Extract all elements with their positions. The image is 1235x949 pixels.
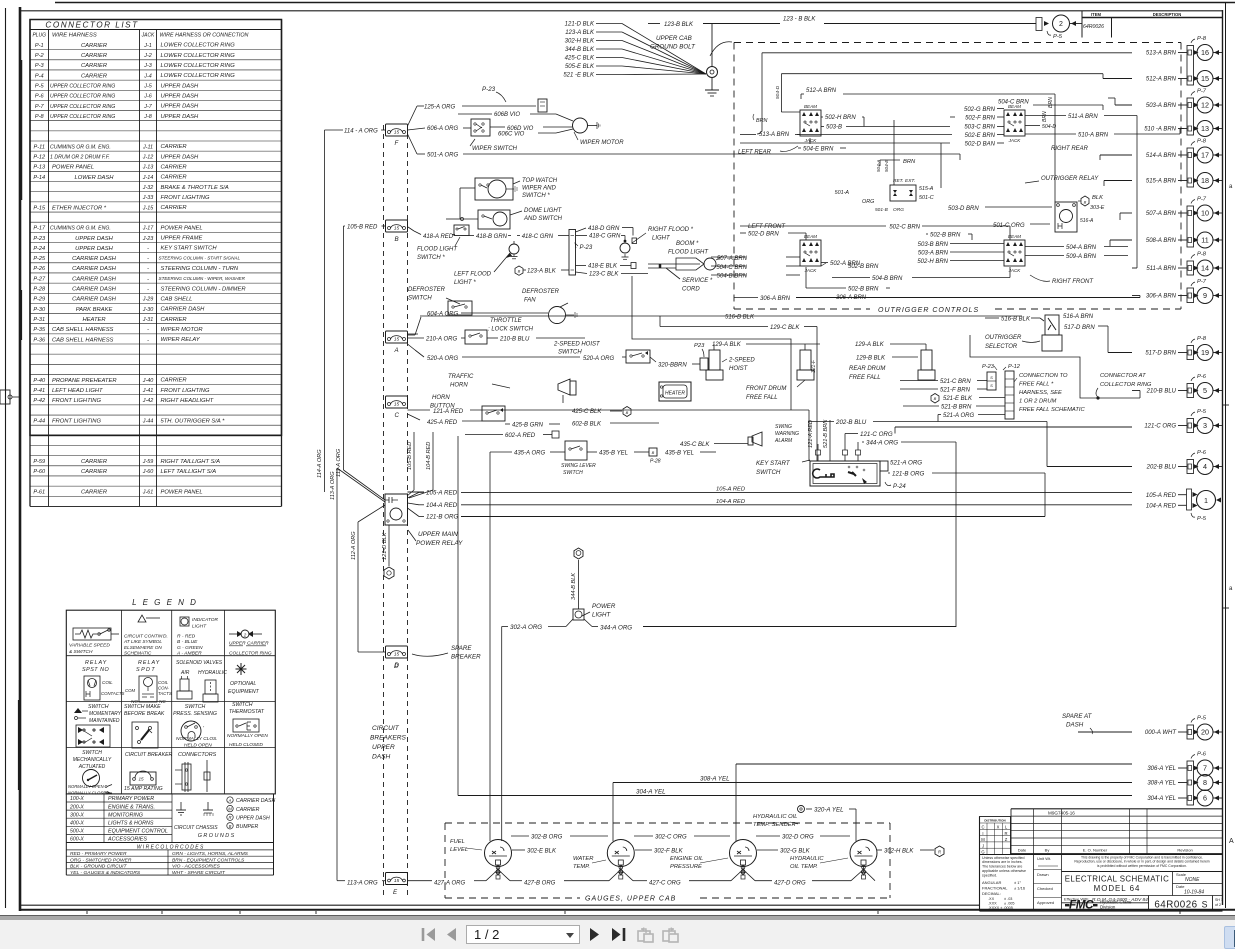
svg-text:CONNECTION TO: CONNECTION TO — [1019, 373, 1068, 379]
svg-text:521-A ORG: 521-A ORG — [943, 413, 974, 419]
svg-text:521-C BRN: 521-C BRN — [940, 379, 971, 385]
svg-text:17: 17 — [1201, 151, 1209, 160]
svg-text:HORN: HORN — [450, 383, 468, 389]
svg-text:POWER RELAY: POWER RELAY — [416, 540, 463, 547]
svg-text:Approved: Approved — [1037, 900, 1054, 905]
page border bottom — [20, 904, 980, 906]
svg-text:123-A BLK: 123-A BLK — [527, 269, 557, 275]
svg-text:COLLECTOR RING: COLLECTOR RING — [1100, 382, 1152, 388]
svg-text:J-60: J-60 — [142, 469, 154, 475]
svg-text:516-A: 516-A — [1080, 218, 1094, 224]
legend switch thermostat — [227, 702, 268, 748]
svg-text:13: 13 — [1201, 124, 1209, 133]
svg-text:P-6: P-6 — [1197, 752, 1207, 758]
svg-text:321-F: 321-F — [811, 359, 817, 373]
2-speed hoist solenoid — [706, 342, 820, 380]
svg-text:POWER PANEL: POWER PANEL — [52, 165, 94, 171]
right flood light — [620, 227, 694, 259]
svg-text:C: C — [981, 825, 984, 830]
svg-text:15: 15 — [394, 878, 400, 884]
svg-text:ENGINE OIL: ENGINE OIL — [670, 856, 703, 862]
svg-text:UPPER FRAME: UPPER FRAME — [161, 236, 203, 242]
svg-text:504-B BRN: 504-B BRN — [717, 274, 748, 280]
legend switch momentary maintained — [74, 704, 122, 747]
gauge 1 fuel level — [485, 840, 512, 880]
svg-text:J-29: J-29 — [142, 297, 154, 303]
svg-text:P-40: P-40 — [33, 378, 46, 384]
svg-text:WARNING: WARNING — [775, 431, 799, 437]
svg-text:503-B: 503-B — [826, 125, 842, 131]
svg-text:64R0026: 64R0026 — [1154, 900, 1197, 911]
svg-text:SWITCH: SWITCH — [408, 296, 432, 302]
svg-text:SWITCH: SWITCH — [82, 750, 102, 756]
svg-text:513-A BRN: 513-A BRN — [759, 132, 790, 138]
svg-text:12: 12 — [1201, 101, 1209, 110]
svg-text:BRN: BRN — [1042, 111, 1048, 122]
svg-text:OUTRIGGER RELAY: OUTRIGGER RELAY — [1041, 176, 1099, 182]
svg-text:CARRIER: CARRIER — [81, 490, 108, 496]
svg-text:501-A: 501-A — [835, 190, 850, 196]
svg-text:of 2: of 2 — [1215, 903, 1221, 907]
svg-text:516-B BLK: 516-B BLK — [725, 315, 755, 321]
vertical 105-A RED feed down-left — [20, 396, 330, 398]
svg-text:P-23: P-23 — [33, 236, 46, 242]
collector ring terminal 9 (306-A BRN) — [1146, 279, 1222, 304]
svg-text:J-30: J-30 — [142, 307, 154, 313]
svg-text:CARRIER: CARRIER — [161, 175, 188, 181]
svg-text:DASH: DASH — [1066, 722, 1084, 729]
svg-text:-: - — [147, 256, 149, 262]
wire 320-A YEL — [798, 806, 857, 842]
svg-text:': ' — [203, 726, 205, 732]
legend optional equipment asterisk — [228, 663, 260, 695]
svg-text:HEATER: HEATER — [665, 391, 685, 397]
wires 521 verticals from solenoids — [899, 370, 901, 381]
svg-text:CARRIER DASH: CARRIER DASH — [72, 256, 117, 262]
svg-text:104-A RED: 104-A RED — [716, 499, 745, 505]
P-8 P-7 connector strips on right border — [1187, 46, 1194, 806]
svg-text:R - RED: R - RED — [177, 634, 196, 640]
svg-text:EQUIPMENT CONTROL: EQUIPMENT CONTROL — [108, 829, 168, 835]
svg-text:UPPER COLLECTOR RING: UPPER COLLECTOR RING — [50, 84, 115, 90]
svg-text:specified.: specified. — [982, 873, 997, 877]
svg-text:POWER: POWER — [592, 603, 616, 610]
svg-text:SWITCH: SWITCH — [232, 702, 253, 708]
svg-text:J: J — [982, 843, 984, 848]
svg-text:A: A — [1229, 838, 1234, 845]
svg-text:-: - — [147, 266, 149, 272]
svg-text:P-7: P-7 — [1197, 279, 1207, 285]
svg-text:AT LIKE SYMBOL: AT LIKE SYMBOL — [123, 639, 162, 644]
svg-text:B: B — [229, 824, 232, 829]
wire 202-B BLU step to terminal 4 — [1046, 422, 1048, 467]
ground hex R at right of gauge 4 — [935, 846, 944, 857]
traffic horn — [448, 374, 576, 403]
svg-text:435-A ORG: 435-A ORG — [514, 451, 545, 457]
legend switch mechanically actuated — [68, 750, 112, 796]
svg-text:502-B BRN: 502-B BRN — [848, 287, 879, 293]
svg-text:WIPER MOTOR: WIPER MOTOR — [580, 140, 624, 146]
svg-text:TOP WATCH: TOP WATCH — [522, 178, 558, 184]
svg-text:HYDRAULIC: HYDRAULIC — [198, 670, 227, 676]
collector ring terminal 20 (000-A WHT) — [1145, 716, 1222, 741]
svg-text:514-A BRN: 514-A BRN — [1146, 153, 1177, 159]
svg-text:504-E: 504-E — [884, 159, 889, 172]
page border top outer — [55, 2, 1235, 4]
svg-text:± .005: ± .005 — [1004, 902, 1015, 906]
svg-text:105-B RED: 105-B RED — [407, 442, 413, 470]
svg-text:114-A ORG: 114-A ORG — [317, 449, 323, 478]
svg-text:516-B BLK: 516-B BLK — [1001, 317, 1031, 323]
svg-text:SWITCH *: SWITCH * — [417, 255, 445, 261]
top watch wiper and switch — [475, 178, 558, 200]
svg-text:LIGHT: LIGHT — [652, 236, 671, 242]
svg-text:P-23: P-23 — [482, 86, 496, 93]
svg-text:HARNESS, SEE: HARNESS, SEE — [1019, 390, 1062, 396]
svg-text:SWITCH: SWITCH — [756, 469, 781, 476]
svg-text:UPPER DASH: UPPER DASH — [161, 83, 200, 89]
svg-text:502-F BRN: 502-F BRN — [965, 116, 996, 122]
svg-text:6: 6 — [1203, 794, 1207, 803]
svg-text:PRIMARY POWER: PRIMARY POWER — [108, 796, 154, 802]
svg-text:UPPER DASH: UPPER DASH — [236, 815, 270, 821]
svg-text:508-A BRN: 508-A BRN — [1146, 238, 1177, 244]
svg-text:CONTACTS: CONTACTS — [101, 691, 124, 696]
circuit breaker C — [386, 396, 408, 419]
power light — [573, 603, 616, 620]
svg-text:304-A YEL: 304-A YEL — [1147, 796, 1176, 802]
drawing number 64R0026S — [980, 896, 1224, 912]
heater — [659, 382, 691, 401]
svg-text:MONITORING: MONITORING — [108, 812, 143, 818]
svg-text:502-C BRN: 502-C BRN — [889, 225, 920, 231]
svg-text:CARRIER DASH: CARRIER DASH — [72, 287, 117, 293]
svg-text:BRN: BRN — [903, 159, 916, 165]
svg-text:CIRCUIT BREAKER: CIRCUIT BREAKER — [125, 752, 173, 758]
svg-text:CUMMINS OR G.M. ENG.: CUMMINS OR G.M. ENG. — [50, 226, 111, 232]
svg-text:320-A YEL: 320-A YEL — [814, 807, 844, 814]
svg-text:600-X: 600-X — [70, 837, 84, 843]
wire 121-D BLK with ground hex — [388, 525, 390, 566]
svg-text:ETHER INJECTOR *: ETHER INJECTOR * — [52, 205, 107, 211]
svg-text:SPARE AT: SPARE AT — [1062, 713, 1093, 720]
svg-text:SOLENOID VALVES: SOLENOID VALVES — [176, 660, 223, 666]
svg-text:J-2: J-2 — [143, 53, 152, 59]
svg-text:CARRIER: CARRIER — [161, 144, 188, 150]
collector ring terminal 10 (507-A BRN) — [1146, 197, 1222, 222]
svg-text:COLLECTOR RING: COLLECTOR RING — [229, 651, 272, 657]
svg-text:502-B BRN: 502-B BRN — [848, 264, 879, 270]
svg-text:129-C BLK: 129-C BLK — [770, 325, 800, 331]
svg-text:FREE FALL: FREE FALL — [746, 395, 778, 401]
item description header box — [1082, 10, 1223, 12]
svg-text:J-3: J-3 — [143, 63, 152, 69]
svg-text:418-C GRN: 418-C GRN — [589, 234, 621, 240]
svg-text:FRONT LIGHTING: FRONT LIGHTING — [52, 418, 101, 424]
svg-text:J-33: J-33 — [142, 195, 154, 201]
svg-text:511-A BRN: 511-A BRN — [1146, 266, 1176, 272]
svg-text:502-B BRN: 502-B BRN — [930, 233, 961, 239]
svg-text:J-11: J-11 — [142, 144, 153, 150]
ground bolt wire fan labels — [563, 22, 706, 79]
wires connecting gauges 302 series — [510, 836, 512, 843]
svg-text:P-60: P-60 — [33, 469, 46, 475]
svg-text:LEFT HEAD LIGHT: LEFT HEAD LIGHT — [52, 388, 103, 394]
svg-text:P-5: P-5 — [35, 84, 45, 90]
svg-text:105-A RED: 105-A RED — [1146, 493, 1177, 499]
svg-text:HELD CLOSED: HELD CLOSED — [229, 742, 263, 748]
svg-text:306-A BRN: 306-A BRN — [1146, 294, 1177, 300]
wire 320-B BRN — [650, 357, 656, 362]
svg-text:P-26: P-26 — [33, 266, 46, 272]
svg-text:P-12: P-12 — [33, 155, 46, 161]
svg-text:AND SWITCH: AND SWITCH — [523, 216, 563, 222]
svg-text:P-7: P-7 — [1197, 89, 1207, 95]
wires 521 group — [900, 379, 1005, 422]
svg-text:344-A ORG: 344-A ORG — [866, 440, 898, 447]
wire 344-A ORG vertical right — [955, 442, 957, 627]
svg-text:FRONT LIGHTING: FRONT LIGHTING — [52, 398, 101, 404]
svg-text:ACCESSORIES: ACCESSORIES — [107, 837, 147, 843]
collector ring terminal 3 (121-C ORG) — [1144, 409, 1222, 434]
svg-text:123-C BLK: 123-C BLK — [589, 272, 619, 278]
tolerance note block — [980, 855, 1223, 912]
collector ring terminal 6 (304-A YEL) — [1147, 790, 1222, 806]
wire path to front drum cluster — [632, 276, 791, 410]
svg-text:UPPER DASH: UPPER DASH — [161, 114, 200, 120]
svg-text:121-D BLK: 121-D BLK — [565, 22, 595, 28]
P-23 and P-12 connector strips — [982, 364, 1021, 419]
wire 105-A RED long horizontal — [424, 491, 461, 493]
collector ring terminal 14 (511-A BRN) — [1146, 252, 1222, 277]
svg-text:FLOOD LIGHT: FLOOD LIGHT — [668, 250, 709, 256]
svg-text:WIRE HARNESS: WIRE HARNESS — [52, 33, 97, 39]
upper main power relay — [385, 494, 408, 525]
wire 602-A RED long vertical — [658, 423, 660, 435]
svg-text:P-12: P-12 — [1008, 364, 1021, 370]
svg-text:KEY START: KEY START — [756, 460, 791, 467]
svg-text:VARIABLE SPEED: VARIABLE SPEED — [69, 643, 110, 649]
svg-text:WIPER SWITCH: WIPER SWITCH — [472, 146, 518, 152]
svg-text:DOME LIGHT: DOME LIGHT — [524, 208, 563, 214]
svg-text:SWITCH: SWITCH — [558, 350, 582, 356]
title block — [980, 809, 1223, 911]
svg-text:MOMENTARY: MOMENTARY — [89, 711, 122, 717]
svg-text:P-44: P-44 — [33, 418, 45, 424]
svg-text:15: 15 — [394, 226, 400, 232]
svg-text:515-A: 515-A — [919, 186, 934, 192]
svg-text:P-13: P-13 — [33, 165, 46, 171]
svg-text:B - BLUE: B - BLUE — [177, 639, 198, 645]
collector ring terminal 17 (514-A BRN) — [1146, 139, 1222, 164]
svg-text:FREE FALL SCHEMATIC: FREE FALL SCHEMATIC — [1019, 407, 1086, 413]
svg-text:JACK: JACK — [1008, 138, 1022, 143]
svg-text:PARK BRAKE: PARK BRAKE — [76, 307, 113, 313]
wire 104-A RED long horizontal — [408, 503, 420, 505]
svg-text:MODEL 64: MODEL 64 — [1094, 884, 1141, 893]
svg-text:503-B BRN: 503-B BRN — [918, 242, 949, 248]
svg-text:S: S — [1202, 900, 1208, 910]
svg-text:B: B — [518, 269, 521, 274]
svg-text:applicable unless otherwise: applicable unless otherwise — [982, 869, 1026, 873]
svg-text:SPST NO: SPST NO — [82, 667, 109, 673]
wire 112-A ORG vertical — [357, 522, 359, 652]
svg-text:435-B YEL: 435-B YEL — [599, 451, 628, 457]
svg-text:121-D BLK: 121-D BLK — [382, 532, 388, 560]
svg-text:9: 9 — [1203, 291, 1207, 300]
svg-text:J-44: J-44 — [142, 418, 154, 424]
sidebar toggle highlighted — [1224, 926, 1235, 949]
svg-text:SWITCH MAKE: SWITCH MAKE — [124, 704, 161, 710]
svg-text:UPPER CAB: UPPER CAB — [656, 35, 692, 42]
svg-text:15 AMP RATING: 15 AMP RATING — [124, 786, 163, 792]
svg-text:CONNECTOR AT: CONNECTOR AT — [1100, 373, 1146, 379]
svg-text:RIGHT HEADLIGHT: RIGHT HEADLIGHT — [161, 398, 214, 404]
svg-text:TEMP.: TEMP. — [573, 864, 590, 870]
legend variable speed switch symbol — [69, 628, 119, 655]
svg-text:302-D ORG: 302-D ORG — [782, 835, 814, 841]
right rear outrigger connector — [1004, 104, 1089, 152]
svg-text:LEVEL: LEVEL — [450, 847, 468, 853]
svg-text:427-C ORG: 427-C ORG — [649, 881, 681, 887]
svg-text:WATER: WATER — [573, 856, 594, 862]
svg-text:521 -E BLK: 521 -E BLK — [563, 73, 595, 79]
svg-text:LEFT REAR: LEFT REAR — [738, 150, 772, 156]
gauges dashed box — [445, 823, 890, 903]
hex B 123-A BLK — [515, 266, 569, 275]
outrigger center switch — [835, 159, 940, 213]
svg-text:ELSEWHERE ON: ELSEWHERE ON — [124, 645, 162, 650]
svg-text:W I R E C O L O R C O D: W I R E C O L O R C O D E S — [137, 844, 204, 850]
wiper switch — [470, 119, 518, 152]
swing warning alarm — [748, 424, 799, 446]
svg-text:Drawn: Drawn — [1037, 872, 1049, 877]
collector ring terminal 12 (503-A BRN) — [1146, 89, 1222, 114]
svg-text:P-3: P-3 — [35, 63, 45, 69]
upper cab ground bolt — [650, 24, 732, 97]
svg-text:121-B ORG: 121-B ORG — [426, 514, 459, 521]
svg-text:CAB SHELL HARNESS: CAB SHELL HARNESS — [52, 327, 114, 333]
circuit breaker A — [386, 331, 408, 354]
svg-text:a: a — [1229, 586, 1233, 592]
svg-text:FREE FALL *: FREE FALL * — [1019, 382, 1054, 388]
svg-text:435-B YEL: 435-B YEL — [665, 451, 694, 457]
svg-text:dimensions are in inches.: dimensions are in inches. — [982, 860, 1023, 864]
prev page button (disabled) — [445, 927, 458, 942]
svg-text:ORG: ORG — [862, 199, 874, 205]
svg-text:NORMALLY CLOSED: NORMALLY CLOSED — [68, 791, 109, 796]
svg-text:P-59: P-59 — [33, 459, 45, 465]
svg-text:Date: Date — [1018, 848, 1027, 853]
svg-text:2-SPEED HOIST: 2-SPEED HOIST — [553, 342, 601, 348]
svg-text:CARRIER DASH: CARRIER DASH — [72, 276, 117, 282]
svg-text:.XXXX ± .0005: .XXXX ± .0005 — [988, 906, 1013, 910]
wire 306-A YEL — [736, 763, 1132, 765]
svg-text:RIGHT FRONT: RIGHT FRONT — [1052, 279, 1094, 285]
svg-text:P-23: P-23 — [982, 364, 995, 370]
svg-text:AIR: AIR — [180, 670, 190, 676]
svg-text:J-13: J-13 — [142, 165, 154, 171]
service cord — [648, 264, 713, 293]
svg-text:200-X: 200-X — [69, 804, 84, 810]
svg-text:STEERING COLUMN - WIPER, WASHE: STEERING COLUMN - WIPER, WASHER — [159, 276, 246, 281]
left edge connector — [0, 390, 20, 404]
wire 104-A RED long — [462, 504, 1184, 506]
svg-text:510 -A BRN: 510 -A BRN — [1144, 127, 1176, 133]
svg-text:320-BBRN: 320-BBRN — [658, 363, 687, 369]
svg-text:500-X: 500-X — [70, 829, 84, 835]
gauge 3 engine oil pressure — [730, 840, 757, 880]
svg-text:WIPER MOTOR: WIPER MOTOR — [161, 327, 204, 333]
svg-text:105-A RED: 105-A RED — [426, 490, 458, 497]
svg-text:418-E BLK: 418-E BLK — [588, 264, 618, 270]
svg-text:300-X: 300-X — [70, 812, 84, 818]
svg-text:302-F BLK: 302-F BLK — [654, 849, 684, 855]
svg-text:HOIST: HOIST — [729, 366, 749, 372]
svg-text:SH 1: SH 1 — [1215, 898, 1223, 902]
svg-text:129-A BLK: 129-A BLK — [712, 342, 742, 348]
svg-text:CARRIER: CARRIER — [161, 205, 188, 211]
svg-text:J-5: J-5 — [143, 84, 152, 90]
svg-text:M: M — [981, 837, 985, 842]
svg-text:516-A BRN: 516-A BRN — [1063, 314, 1094, 320]
svg-text:OIL TEMP.: OIL TEMP. — [790, 864, 818, 870]
svg-text:511-A BRN: 511-A BRN — [1068, 114, 1098, 120]
svg-text:303-E: 303-E — [1090, 205, 1105, 211]
svg-text:NONE: NONE — [1185, 877, 1200, 883]
legend circuit breaker symbol — [124, 752, 173, 792]
svg-text:CARRIER DASH: CARRIER DASH — [72, 297, 117, 303]
svg-text:P-28: P-28 — [33, 287, 46, 293]
svg-text:FLOOD LIGHT: FLOOD LIGHT — [417, 247, 458, 253]
svg-text:P-27: P-27 — [33, 276, 46, 282]
svg-text:100-X: 100-X — [70, 796, 84, 802]
svg-text:503-A BRN: 503-A BRN — [1146, 103, 1177, 109]
vertical 1120 to 503-A BRN — [1119, 105, 1121, 155]
svg-text:P-42: P-42 — [33, 398, 46, 404]
svg-text:210-B BLU: 210-B BLU — [499, 337, 530, 343]
svg-text:202-B BLU: 202-B BLU — [835, 419, 867, 426]
collector ring terminal 8 (308-A YEL) — [1147, 775, 1222, 791]
circuit breaker E — [386, 873, 408, 897]
left front outrigger connector — [748, 224, 821, 273]
svg-text:BLK: BLK — [1092, 195, 1104, 201]
svg-text:502-H BRN: 502-H BRN — [825, 115, 856, 121]
svg-text:ENGINE & TRANS.: ENGINE & TRANS. — [108, 804, 155, 810]
svg-text:302-H BLK: 302-H BLK — [565, 39, 595, 45]
wire 113-A ORG vertical — [336, 468, 338, 881]
svg-text:P-7: P-7 — [35, 104, 45, 110]
svg-text:CARRIER: CARRIER — [81, 43, 108, 49]
svg-text:SWITCH: SWITCH — [563, 470, 583, 476]
svg-text:UPPER COLLECTOR RING: UPPER COLLECTOR RING — [50, 104, 115, 110]
svg-text:C: C — [395, 412, 400, 419]
svg-text:CAB SHELL HARNESS: CAB SHELL HARNESS — [52, 337, 114, 343]
svg-text:BREAKERS: BREAKERS — [370, 735, 407, 742]
svg-text:CARRIER: CARRIER — [81, 63, 108, 69]
svg-text:is prohibited without written: is prohibited without written permission… — [1097, 864, 1187, 868]
vertical 1055 BRN to outrigger relay — [1054, 94, 1056, 202]
svg-text:Division: Division — [1100, 904, 1116, 909]
svg-text:P-23: P-23 — [580, 245, 593, 251]
dome light and switch — [446, 188, 563, 229]
svg-text:J-41: J-41 — [142, 388, 154, 394]
svg-text:.XX: .XX — [988, 897, 995, 901]
svg-text:NORMALLY OPEN: NORMALLY OPEN — [227, 733, 268, 739]
svg-text:HEATER: HEATER — [82, 317, 106, 323]
svg-text:123 - B BLK: 123 - B BLK — [783, 17, 816, 23]
svg-text:SCHEMATIC: SCHEMATIC — [124, 651, 152, 656]
